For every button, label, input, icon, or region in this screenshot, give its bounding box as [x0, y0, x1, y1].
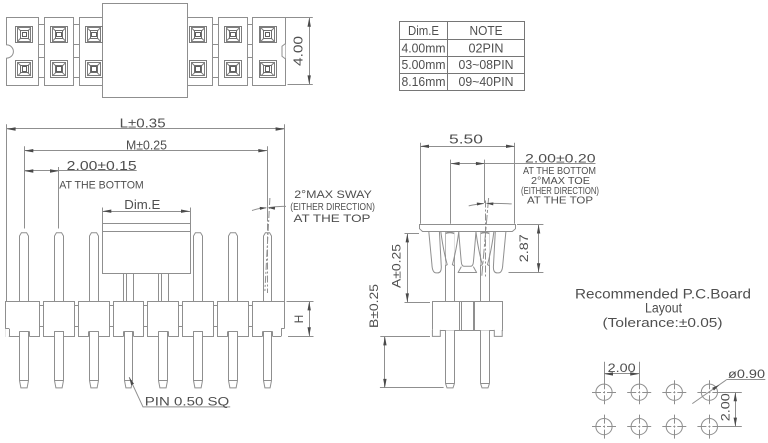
svg-text:M±0.25: M±0.25	[126, 138, 167, 152]
svg-text:AT THE TOP: AT THE TOP	[527, 195, 593, 207]
svg-text:5.00mm: 5.00mm	[402, 58, 446, 72]
svg-text:2.00: 2.00	[719, 393, 733, 421]
svg-text:Layout: Layout	[645, 301, 682, 316]
svg-text:03~08PIN: 03~08PIN	[459, 58, 514, 72]
svg-text:09~40PIN: 09~40PIN	[459, 75, 514, 89]
svg-text:4.00mm: 4.00mm	[402, 42, 446, 56]
svg-text:AT THE TOP: AT THE TOP	[294, 213, 371, 225]
svg-text:Dim.E: Dim.E	[124, 198, 160, 212]
svg-text:5.50: 5.50	[449, 133, 483, 147]
svg-text:(EITHER DIRECTION): (EITHER DIRECTION)	[290, 201, 375, 213]
svg-text:Dim.E: Dim.E	[408, 24, 439, 38]
svg-text:4.00: 4.00	[290, 36, 305, 66]
svg-text:8.16mm: 8.16mm	[402, 75, 446, 89]
svg-text:AT THE BOTTOM: AT THE BOTTOM	[59, 179, 144, 191]
svg-text:H: H	[292, 315, 306, 324]
svg-text:2°MAX SWAY: 2°MAX SWAY	[294, 189, 372, 201]
svg-text:2.00: 2.00	[608, 361, 636, 375]
svg-text:2.87: 2.87	[517, 234, 531, 262]
svg-text:Recommended P.C.Board: Recommended P.C.Board	[575, 286, 751, 301]
svg-text:NOTE: NOTE	[470, 24, 503, 38]
svg-text:02PIN: 02PIN	[469, 42, 504, 56]
svg-text:PIN 0.50 SQ: PIN 0.50 SQ	[145, 394, 230, 408]
svg-text:(Tolerance:±0.05): (Tolerance:±0.05)	[603, 315, 723, 330]
svg-text:B±0.25: B±0.25	[369, 284, 381, 328]
svg-text:ø0.90: ø0.90	[728, 367, 765, 381]
svg-text:A±0.25: A±0.25	[392, 244, 404, 288]
svg-text:2.00±0.15: 2.00±0.15	[67, 159, 137, 173]
svg-text:L±0.35: L±0.35	[120, 117, 166, 131]
svg-text:2.00±0.20: 2.00±0.20	[525, 151, 596, 165]
